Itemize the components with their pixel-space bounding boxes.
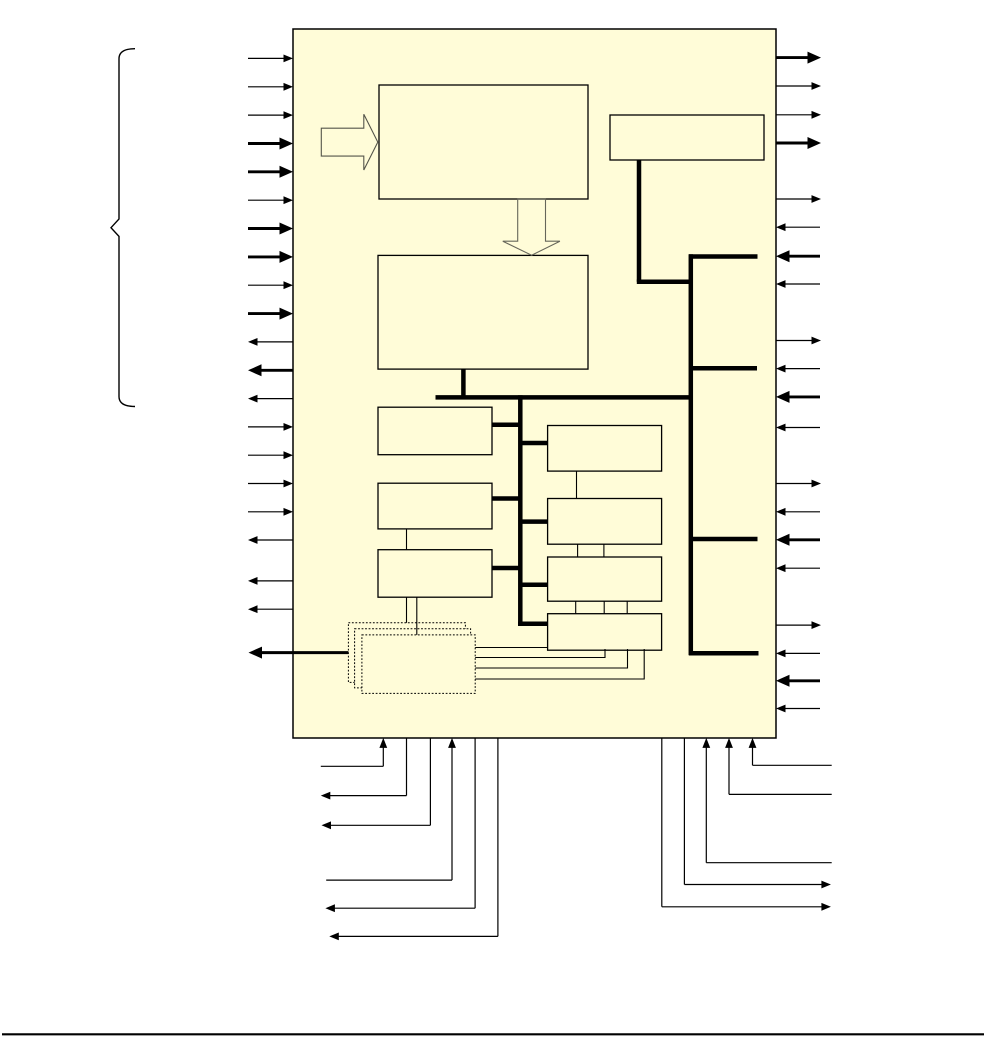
bus stub: central bus elbow to bottom right box — [518, 622, 549, 627]
bus stub: right bus, third — [689, 537, 758, 542]
block: register file (second large box) — [378, 255, 588, 369]
wire: left pin 1 (in, thin) — [248, 55, 293, 63]
wire: left pin 17 (in, thin) — [248, 508, 293, 516]
wire: box C down to port stack (a) — [406, 597, 408, 624]
wire: bottom-right pin 3 (input, up arrow) — [702, 738, 831, 863]
wire: thick line from control box down — [637, 160, 642, 282]
wire: left pin 11 (out, thin) — [248, 338, 293, 346]
wire: right pin 15 (in, thick) — [776, 534, 820, 546]
wire: left pin 19 (out, thin) — [248, 577, 293, 585]
block: I/O port (middle dashed box) — [355, 629, 471, 688]
wire: thick elbow to right bus — [637, 279, 692, 284]
block: I/O port (back dashed box) — [348, 623, 465, 683]
wire: left pin 16 (in, thin) — [248, 480, 293, 488]
wire: left pin 14 (in, thin) — [248, 423, 293, 431]
wire: box B to box C — [406, 529, 408, 550]
wire: right pin 16 (in, thin) — [776, 564, 820, 572]
wire: right pin 7 (in, thick) — [776, 250, 820, 262]
wire: right pin 4 (out, thick) — [776, 137, 821, 149]
wire: right pin 18 (in, thin) — [776, 650, 820, 658]
wire: bottom-left pin 6 (output, arrow left) — [329, 738, 498, 940]
wire: right pin 3 (out, thin) — [776, 111, 821, 119]
block: peripheral box R2 (right column 2) — [548, 499, 662, 545]
wire: bottom-right pin 5 (input, up arrow) — [749, 738, 832, 765]
fat block arrow into CPU core (program flow, points right) — [321, 114, 378, 170]
wire: bottom-left pin 1 (input, up arrow) — [321, 738, 387, 766]
wire: bottom-left pin 5 (output, arrow left) — [325, 738, 475, 912]
wire: R1 to R2 — [576, 471, 578, 499]
wire: right pin 6 (in, thin) — [776, 223, 820, 231]
wire: port stack to R4 left edge — [455, 647, 548, 649]
bus stub: central bus to right box R1 — [519, 441, 549, 446]
wire: R2 to R3 (b) — [603, 544, 605, 557]
chip body (main IC block) — [293, 29, 776, 738]
block: peripheral box C (left column 3) — [378, 550, 492, 598]
block: peripheral box B (left column 2) — [378, 483, 492, 529]
block: peripheral box R4 (right column 4) — [548, 614, 662, 651]
wire: bottom-left pin 3 (output, arrow left) — [322, 738, 431, 829]
block: peripheral box R3 (right column 3) — [548, 557, 662, 601]
wire: left pin 21 long thick output from port block — [249, 647, 361, 659]
bus stub: central bus to left box B — [491, 496, 522, 501]
wire: right pin 14 (in, thin) — [776, 508, 820, 516]
wire: right pin 5 (out, thin) — [776, 195, 821, 203]
wire: left pin 13 (out, thin) — [248, 395, 293, 403]
wire: bottom-left pin 4 (input, up arrow) — [326, 738, 456, 880]
wire: bottom-right pin 4 (input, up arrow) — [725, 738, 832, 795]
wire: R3 to R4 (b) — [603, 601, 605, 614]
block: CPU core (top-left large box) — [379, 85, 588, 199]
wire: right pin 13 (out, thin) — [776, 480, 821, 488]
bus stub: right bus, bottom — [689, 651, 759, 656]
wire: bottom-left pin 2 (output, arrow left) — [321, 738, 407, 800]
wire: left pin 9 (in, thin) — [248, 281, 293, 289]
wire: left pin 6 (in, thin) — [248, 196, 293, 204]
bus stub: central bus to right box R2 — [519, 519, 549, 524]
wire: left pin 18 (out, thin) — [248, 536, 293, 544]
block: peripheral box R1 (right column 1) — [548, 426, 662, 472]
bus stub: right bus, second — [689, 366, 757, 371]
wire: left pin 12 (out, thick) — [248, 364, 293, 376]
wire: left pin 5 (in, thick) — [248, 166, 293, 178]
wire: port stack to R4 bottom (b) — [455, 649, 628, 669]
bus: right vertical bus — [689, 254, 694, 655]
wire: right pin 10 (in, thin) — [776, 365, 820, 373]
wire: right pin 1 (out, thick) — [776, 52, 821, 64]
bus stub: central bus to left box A — [491, 423, 522, 428]
wire: port stack to R4 bottom (c) — [455, 649, 644, 680]
wire: left pin 3 (in, thin) — [248, 111, 293, 119]
wire: left pin 20 (out, thin) — [248, 605, 293, 613]
wire: left pin 2 (in, thin) — [248, 83, 293, 91]
wire: left pin 10 (in, thick) — [248, 308, 293, 320]
wire: bottom-right pin 2 (output, arrow right) — [684, 738, 831, 888]
wire: right pin 11 (in, thick) — [776, 391, 820, 403]
wire: port stack to R4 bottom (a) — [455, 649, 605, 658]
left curly brace (pin group bracket) — [111, 49, 135, 407]
wire: bottom-right pin 1 (output, arrow right) — [662, 738, 831, 911]
wire: right pin 2 (out, thin) — [776, 82, 821, 90]
fat block arrow CPU to registers (points down) — [503, 199, 560, 255]
wire: right pin 20 (in, thin) — [776, 705, 820, 713]
bus stub: central bus to right box R3 — [519, 583, 549, 588]
wire: right pin 19 (in, thick) — [776, 675, 820, 687]
wire: right pin 12 (in, thin) — [776, 424, 820, 432]
footer horizontal rule — [2, 1033, 984, 1035]
wire: left pin 8 (in, thick) — [248, 251, 293, 263]
wire: R3 to R4 (a) — [575, 601, 577, 614]
wire: R3 to R4 (c) — [626, 601, 628, 614]
block: I/O port (front dashed box) — [362, 635, 475, 694]
wire: register block to data bus (thick) — [461, 369, 466, 397]
wire: right pin 9 (out, thin) — [776, 337, 821, 345]
wire: box C down to port stack (b, reaches front box) — [416, 597, 418, 636]
wire: left pin 7 (in, thick) — [248, 223, 293, 235]
bus: main horizontal data bus — [436, 395, 694, 400]
wire: right pin 17 (out, thin) — [776, 621, 821, 629]
wire: left pin 15 (in, thin) — [248, 451, 293, 459]
block: oscillator/control (top-right box) — [610, 115, 764, 160]
bus stub: central bus to left box C — [491, 566, 522, 571]
bus stub: right bus to edge, top — [689, 254, 758, 259]
bus: central vertical peripheral bus — [518, 395, 523, 626]
wire: right pin 8 (in, thin) — [776, 280, 820, 288]
wire: left pin 4 (in, thick) — [248, 138, 293, 150]
wire: R2 to R3 (a) — [577, 544, 579, 557]
block: peripheral box A (left column 1) — [378, 407, 492, 455]
